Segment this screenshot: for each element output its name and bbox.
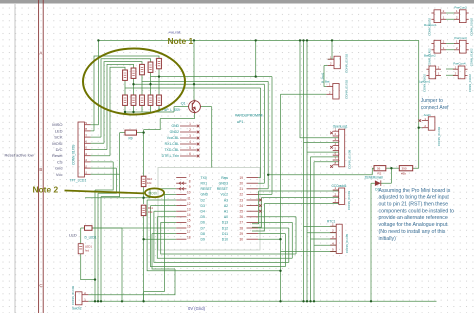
R2: [374, 166, 386, 171]
svg-text:uP1: uP1: [237, 120, 243, 124]
junction: [193, 39, 195, 41]
svg-text:A0: A0: [224, 215, 228, 219]
resistor R3b: [140, 95, 145, 105]
svg-text:D12: D12: [222, 226, 228, 230]
resistor R5b: [157, 95, 162, 105]
svg-text:27: 27: [240, 221, 244, 225]
svg-text:DTR,L,TxIn: DTR,L,TxIn: [162, 154, 179, 158]
wire RTC pin 2: [307, 232, 336, 234]
connector BatCon1: [326, 83, 339, 99]
resistor R2b: [131, 95, 136, 105]
svg-text:Aref1: Aref1: [424, 113, 432, 117]
svg-text:30: 30: [240, 238, 244, 242]
svg-text:8: 8: [189, 180, 191, 184]
svg-text:RESET: RESET: [217, 187, 228, 191]
junction: [142, 300, 144, 302]
svg-text:Note 2: Note 2: [33, 184, 59, 194]
junction: [279, 270, 281, 272]
junction: [255, 39, 257, 41]
junction: [279, 300, 281, 302]
wire R11 to 0V rail: [143, 216, 145, 302]
junction: [302, 300, 304, 302]
junction: [132, 83, 134, 85]
connector RunCon1: [431, 9, 446, 22]
wire RTC pin 4: [314, 244, 336, 246]
svg-text:10k: 10k: [147, 181, 152, 185]
wire LED resistor to LED: [81, 228, 85, 244]
svg-text:ZENERsmall: ZENERsmall: [365, 176, 384, 180]
connector B_Swt1: [328, 55, 341, 68]
svg-text:CS: CS: [57, 159, 63, 164]
svg-text:10k: 10k: [148, 210, 153, 214]
wire I2C pin 2 to D12 net: [252, 198, 339, 228]
connector PwrCon2: [454, 9, 469, 22]
svg-text:D7: D7: [201, 226, 205, 230]
connector PwrCon4: [453, 65, 468, 78]
svg-text:RX1-CBL: RX1-CBL: [165, 142, 179, 146]
wire bottom resistor commons: [125, 105, 174, 112]
wire pin 29 D11 to loop: [258, 234, 285, 267]
svg-text:C: C: [39, 283, 42, 288]
op-amp U1 Pro Mini upper connector pins: [162, 122, 200, 158]
svg-text:Reset: Reset: [52, 153, 63, 158]
wire I2C pin 3 to D11 net: [252, 204, 339, 232]
wire LED to 0V: [81, 254, 95, 280]
svg-text:Swch2: Swch2: [72, 307, 82, 311]
svg-text:D8: D8: [201, 232, 205, 236]
svg-text:390: 390: [402, 167, 407, 171]
svg-text:CONN_01X02: CONN_01X02: [469, 17, 473, 35]
svg-text:CONN_01X02: CONN_01X02: [437, 126, 441, 146]
svg-text:TFT_LCD1: TFT_LCD1: [70, 179, 87, 183]
svg-text:+ve rail: +ve rail: [168, 31, 181, 35]
svg-text:CONN_01X02: CONN_01X02: [468, 74, 472, 92]
wire BatCon1 pin 2 to bus: [281, 93, 327, 95]
wire pin 14 loop under IC: [157, 217, 292, 258]
LED D4: [78, 244, 83, 254]
resistor R11: [141, 205, 146, 215]
svg-text:A2: A2: [224, 204, 228, 208]
svg-text:CONN_01X02: CONN_01X02: [71, 285, 75, 305]
svg-text:18: 18: [187, 236, 191, 240]
wire pin 10 GND to 0V: [144, 194, 177, 301]
connector LgtCon1: [426, 65, 441, 78]
junction: [100, 300, 102, 302]
svg-text:D3: D3: [201, 204, 205, 208]
svg-text:10: 10: [187, 191, 191, 195]
wire pin 27 D13 to loop: [258, 222, 292, 258]
junction: [306, 39, 308, 41]
wire bottom resistor tops: [125, 77, 159, 95]
r: [85, 226, 93, 231]
wire R10 to R11: [143, 187, 145, 204]
junction: [149, 83, 151, 85]
wire TFT pin to resistor R3 top: [91, 62, 143, 144]
svg-text:LED: LED: [55, 128, 63, 133]
frame border double line: [39, 0, 44, 313]
IC body outline uP1: [158, 168, 260, 251]
svg-text:19: 19: [240, 176, 244, 180]
junction: [97, 39, 99, 41]
svg-text:Assuming the Pro Mini board is: Assuming the Pro Mini board is: [379, 188, 451, 194]
svg-text:LED: LED: [69, 232, 77, 237]
svg-text:connect Aref: connect Aref: [421, 105, 449, 111]
connector TFT_LCD1: [78, 121, 91, 177]
junction: [142, 238, 144, 240]
R2b: [399, 166, 412, 171]
annotation ellipse Note 1: [83, 49, 185, 115]
wire R9 row: [120, 132, 144, 134]
svg-text:14: 14: [187, 213, 191, 217]
svg-text:#ARDUPROMINI: #ARDUPROMINI: [235, 114, 263, 118]
junction: [124, 111, 126, 113]
no-connect OpenLog: [330, 146, 333, 149]
svg-text:B_Swt1: B_Swt1: [321, 72, 325, 83]
svg-text:#2b: #2b: [401, 172, 406, 176]
svg-text:Q1: Q1: [181, 102, 186, 106]
svg-text:23: 23: [240, 198, 244, 202]
toolbar strip: [0, 0, 474, 4]
connector OpenLog1: [333, 127, 345, 166]
wire rail drop to Aref net: [413, 40, 419, 168]
wire pin 11 loop under IC: [147, 200, 280, 271]
junction: [97, 300, 99, 302]
svg-text:MOSI: MOSI: [149, 191, 157, 195]
junction: [193, 83, 195, 85]
svg-text:SCK: SCK: [54, 135, 63, 140]
svg-text:28: 28: [240, 226, 244, 230]
connector CCCradd1: [333, 186, 345, 204]
wire bus to OpenLog pin 6: [311, 157, 339, 301]
svg-text:2: 2: [189, 128, 191, 132]
wire RST to R2: [268, 168, 374, 175]
junction: [158, 75, 160, 77]
wire pin 15 loop under IC: [161, 222, 296, 254]
wire TFT pin to resistor R5 top: [91, 56, 160, 131]
wire pin 16 to LED resistor: [92, 227, 176, 229]
wire net to pin 22 Vcc2: [151, 77, 273, 195]
resistor R4: [148, 62, 153, 72]
svg-text:provide an alternate reference: provide an alternate reference: [379, 215, 448, 221]
junction: [418, 127, 420, 129]
svg-text:RESET: RESET: [201, 187, 212, 191]
svg-text:CONN_01X02: CONN_01X02: [423, 74, 427, 92]
svg-text:29: 29: [240, 232, 244, 236]
svg-text:CONN_01X02: CONN_01X02: [428, 48, 432, 66]
junction: [121, 300, 123, 302]
connector PwrCon3: [454, 40, 469, 53]
diode D3: [375, 180, 381, 186]
junction: [94, 278, 96, 280]
svg-text:B: B: [39, 167, 42, 172]
wire TFT pin to resistor R2 top: [91, 64, 134, 149]
svg-text:22: 22: [240, 193, 244, 197]
wire bus to OpenLog pin 3: [304, 40, 339, 301]
svg-text:17: 17: [187, 230, 191, 234]
svg-text:CONN_01X03: CONN_01X03: [347, 190, 351, 210]
svg-text:12: 12: [187, 202, 191, 206]
wire D3 cathode: [381, 168, 392, 183]
wire RTC pin 5: [281, 251, 337, 253]
svg-text:CONN_01X02: CONN_01X02: [345, 79, 349, 99]
svg-text:9: 9: [189, 185, 191, 189]
text note Assuming the Pro Mini: [379, 188, 455, 242]
svg-text:D/C: D/C: [56, 147, 63, 152]
wire pin 12 loop under IC: [151, 206, 286, 267]
svg-text:A: A: [39, 51, 42, 56]
connector Aref1: [422, 117, 435, 130]
junction: [309, 300, 311, 302]
wire pin 13 loop under IC: [154, 211, 289, 262]
junction: [132, 111, 134, 113]
svg-text:A1: A1: [224, 210, 228, 214]
svg-text:components could be installed: components could be installed to: [379, 208, 455, 214]
resistor R5: [157, 58, 162, 68]
annotation pointer Note 2: [65, 191, 145, 194]
wire R2 to R2b: [386, 167, 400, 169]
svg-text:D2: D2: [201, 198, 205, 202]
annotation ellipse Note 2: [145, 188, 164, 197]
resistor R1b: [123, 95, 128, 105]
net labels TFT signals: [52, 122, 63, 177]
wire +ve rail: [98, 39, 418, 41]
svg-text:56: 56: [377, 167, 381, 171]
svg-text:Vcc2: Vcc2: [220, 193, 228, 197]
svg-text:13: 13: [187, 208, 191, 212]
wire I2C pin 1 to D13 net: [252, 191, 339, 224]
wire pair 3 links: [446, 69, 455, 75]
svg-text:5: 5: [189, 146, 191, 150]
svg-text:D10: D10: [222, 238, 228, 242]
resistor R4b: [148, 95, 153, 105]
wire rail to OpenLog pin 2: [300, 40, 339, 137]
wire pin 17 to Swch2: [88, 234, 176, 295]
svg-text:D4: D4: [201, 210, 205, 214]
svg-text:21: 21: [240, 187, 244, 191]
svg-text:CONN_01X09: CONN_01X09: [72, 144, 76, 165]
junction: [299, 39, 301, 41]
junction: [306, 300, 308, 302]
svg-text:D_LED1: D_LED1: [85, 236, 97, 240]
junction: [370, 300, 372, 302]
svg-text:MOSI: MOSI: [52, 141, 62, 146]
svg-text:TXD-CBL: TXD-CBL: [164, 148, 179, 152]
svg-text:7: 7: [189, 174, 191, 178]
wire bus to OpenLog pin 5: [307, 40, 339, 301]
svg-text:CONN_01X02: CONN_01X02: [469, 48, 473, 66]
IC right pins 19-30: [217, 176, 262, 242]
svg-text:voltage for the Analogue input: voltage for the Analogue input.: [379, 222, 449, 228]
junction: [142, 197, 144, 199]
svg-text:25: 25: [240, 210, 244, 214]
wire top resistor bottoms: [125, 69, 159, 88]
connector BatCon2: [431, 40, 446, 53]
connector RTC1: [330, 222, 342, 253]
wire D3 anode to 0V: [371, 183, 375, 301]
wire Q1 collector down: [200, 107, 211, 168]
wire net to pin 20 GND3: [134, 84, 265, 183]
svg-text:D9: D9: [201, 238, 205, 242]
wire bus to OpenLog pin 7: [314, 162, 339, 302]
wire TFT pin to resistor R4 top: [91, 59, 151, 137]
no-connect OpenLog: [330, 132, 333, 135]
wire pin 26 A0 to loop: [258, 217, 296, 254]
junction: [302, 39, 304, 41]
svg-text:26: 26: [240, 215, 244, 219]
svg-text:CCCradd1: CCCradd1: [332, 184, 347, 188]
svg-text:PwrCon2: PwrCon2: [454, 5, 467, 9]
resistor R9: [125, 130, 137, 135]
svg-text:Vcc: Vcc: [56, 172, 63, 177]
svg-text:R9: R9: [129, 137, 133, 141]
svg-text:VccCBL: VccCBL: [167, 136, 179, 140]
svg-text:CONN_01X08: CONN_01X08: [348, 149, 352, 169]
svg-text:initially): initially): [379, 236, 397, 242]
svg-text:RTC1: RTC1: [327, 220, 335, 224]
svg-text:D11: D11: [222, 232, 228, 236]
svg-text:MISO: MISO: [52, 122, 62, 127]
wire pin 30 D10: [258, 238, 281, 240]
wire RESET net to left: [85, 189, 176, 198]
IC left pins 7-18: [176, 174, 212, 242]
resistor R10: [141, 176, 146, 186]
svg-text:RX1: RX1: [201, 182, 208, 186]
wire RTC pin 1: [304, 225, 337, 227]
transistor Q1: [189, 100, 201, 114]
no-connect Aref1 pin1: [419, 119, 422, 122]
svg-text:GND3: GND3: [219, 182, 229, 186]
svg-text:CONN_01X02: CONN_01X02: [345, 53, 349, 73]
wire pin 28 D12 to loop: [258, 228, 289, 262]
wire RTC pin 3: [311, 238, 337, 240]
svg-text:16: 16: [187, 224, 191, 228]
no-connect OpenLog: [330, 165, 333, 168]
svg-text:OpenLog1: OpenLog1: [333, 125, 348, 129]
wire B_Swt1 to BatCon1: [324, 66, 328, 87]
svg-text:CONN_01X05: CONN_01X05: [345, 233, 349, 253]
svg-text:Gnd: Gnd: [55, 166, 63, 171]
wire Q1 base to resistor bank: [174, 107, 189, 112]
wire pin 18 to R11 net: [144, 238, 177, 240]
wire vertical bus x280: [280, 94, 282, 301]
svg-text:D13: D13: [222, 221, 228, 225]
svg-text:red: red: [85, 249, 89, 253]
junction: [331, 39, 333, 41]
svg-text:Jumper to: Jumper to: [421, 98, 443, 104]
resistor R2: [131, 68, 136, 78]
svg-text:PwrCon3: PwrCon3: [454, 36, 467, 40]
svg-text:GND: GND: [171, 124, 179, 128]
svg-text:6: 6: [189, 152, 191, 156]
wire TFT pin 2 to 0V: [91, 168, 117, 301]
connector Swch2: [75, 291, 88, 305]
svg-text:(No need to install any of thi: (No need to install any of this: [379, 229, 446, 235]
wire LED net to 0V: [92, 228, 122, 301]
svg-text:15: 15: [187, 219, 191, 223]
wire Aref1 pin 2 branch: [419, 127, 422, 129]
junction: [267, 174, 269, 176]
resistor R1: [123, 70, 128, 80]
wire rail to Q1 emitter: [193, 40, 195, 101]
junction: [279, 238, 281, 240]
wire net to pin 21 RESET: [142, 81, 269, 188]
svg-text:Reset active low: Reset active low: [5, 153, 34, 158]
wire rail drop to Vcc net: [255, 40, 257, 76]
svg-text:Note 1: Note 1: [168, 36, 194, 46]
svg-text:GND: GND: [201, 193, 209, 197]
svg-text:11: 11: [187, 196, 191, 200]
wire rail to TFT pin 9: [91, 40, 99, 124]
svg-text:GND2: GND2: [170, 130, 180, 134]
wire TFT pin 1 to 0V: [91, 133, 120, 302]
svg-text:adjusted to bring the Aref inp: adjusted to bring the Aref input: [379, 195, 450, 201]
svg-text:3: 3: [189, 134, 191, 138]
svg-text:0V (Gnd): 0V (Gnd): [188, 306, 206, 311]
junction: [255, 75, 257, 77]
wire rail to B_Swt1 pin 1: [328, 40, 332, 59]
wire TFT pin to resistor R1 top: [91, 67, 126, 156]
wire TFT pin 3 to 0V: [91, 162, 114, 301]
svg-text:Bat: Bat: [325, 80, 330, 84]
svg-text:4: 4: [189, 140, 191, 144]
wire 0V rail: [88, 300, 436, 302]
svg-text:A3: A3: [224, 198, 228, 202]
wire net to pin 19 Raw: [125, 88, 261, 178]
svg-text:PwrCon4: PwrCon4: [453, 62, 466, 66]
wire pair 2 links: [446, 44, 455, 50]
wire pair 1 links: [446, 13, 455, 19]
svg-text:D5: D5: [201, 215, 205, 219]
svg-text:CONN_01X02: CONN_01X02: [428, 17, 432, 35]
junction: [390, 167, 392, 169]
junction: [313, 300, 315, 302]
wire Q1 to R10 top: [144, 112, 195, 176]
svg-text:D6: D6: [201, 221, 205, 225]
svg-text:20: 20: [240, 182, 244, 186]
svg-text:out to pin 21 (RST) then these: out to pin 21 (RST) then these: [379, 202, 449, 208]
junction: [142, 131, 144, 133]
frame inner grey line: [14, 4, 16, 313]
resistor R3: [140, 64, 145, 74]
svg-text:TX0: TX0: [201, 176, 207, 180]
svg-text:Raw: Raw: [221, 176, 228, 180]
junction: [94, 300, 96, 302]
svg-text:1: 1: [189, 122, 191, 126]
svg-text:24: 24: [240, 204, 244, 208]
